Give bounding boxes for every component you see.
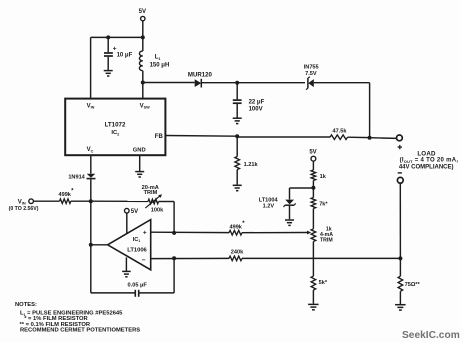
node LOAD + terminal (397, 135, 403, 141)
svg-text:+: + (113, 46, 117, 53)
wire (312, 188, 314, 198)
svg-text:5V: 5V (139, 9, 146, 15)
resistor R8 7k* (311, 198, 316, 209)
wire (151, 257, 229, 259)
svg-text:499k: 499k (58, 192, 71, 198)
wire (399, 291, 401, 304)
wire (71, 200, 91, 202)
junction (89, 243, 93, 247)
svg-text:22 μF: 22 μF (249, 100, 265, 106)
svg-text:150 μH: 150 μH (150, 63, 170, 69)
wire (314, 82, 370, 84)
svg-text:IN755: IN755 (304, 65, 319, 71)
svg-text:1.21k: 1.21k (244, 162, 259, 168)
wire (312, 161, 314, 170)
svg-text:1.2V: 1.2V (263, 203, 275, 209)
svg-text:IC1: IC1 (133, 237, 141, 243)
svg-text:*: * (71, 188, 74, 194)
svg-text:7.5V: 7.5V (305, 71, 317, 77)
wire (90, 179, 92, 201)
svg-text:47.5k: 47.5k (333, 129, 348, 135)
svg-text:FB: FB (155, 134, 164, 140)
ground (285, 219, 294, 221)
junction (106, 35, 110, 39)
svg-text:5V: 5V (309, 150, 316, 156)
svg-text:100V: 100V (249, 107, 263, 113)
wire (33, 200, 59, 202)
resistor R11 75ohm** (398, 276, 403, 291)
svg-text:75Ω**: 75Ω** (405, 282, 421, 288)
wire (159, 201, 175, 203)
junction (89, 199, 93, 203)
wire (165, 135, 237, 138)
junction (141, 35, 145, 39)
junction (235, 81, 239, 85)
op-amp U2 LT1072 switching regulator block (65, 99, 165, 156)
junction (311, 186, 315, 190)
wire (107, 37, 109, 52)
ground (104, 70, 113, 72)
junction (368, 136, 372, 140)
svg-text:7k*: 7k* (319, 202, 328, 208)
svg-text:+: + (143, 230, 147, 237)
svg-text:5V: 5V (131, 209, 138, 215)
junction (398, 256, 402, 260)
svg-text:TRIM: TRIM (144, 190, 158, 196)
svg-text:VIN: VIN (87, 103, 95, 109)
wire (236, 170, 238, 185)
svg-text:SeekIC.com: SeekIC.com (402, 330, 460, 341)
svg-text:100k: 100k (151, 207, 164, 213)
svg-text:LOAD: LOAD (417, 150, 436, 157)
wire (91, 244, 108, 246)
wire (142, 83, 144, 99)
wire (237, 136, 330, 138)
ground (395, 304, 406, 306)
wire (312, 209, 314, 229)
wire (312, 181, 314, 188)
ground (122, 270, 131, 272)
svg-text:(IOUT = 4 TO 20 mA,: (IOUT = 4 TO 20 mA, (400, 158, 459, 164)
svg-text:MUR120: MUR120 (188, 72, 213, 79)
svg-text:GND: GND (133, 147, 146, 153)
capacitor C1 10uF (104, 52, 113, 54)
node 5V supply terminal (op-amp) (125, 208, 130, 213)
wire (91, 200, 148, 202)
wire (151, 231, 229, 233)
ground (135, 171, 144, 173)
wire (370, 137, 398, 140)
svg-text:RECOMMEND CERMET POTENTIOMETER: RECOMMEND CERMET POTENTIOMETERS (20, 327, 140, 333)
svg-text:VIN: VIN (18, 199, 26, 205)
wire (290, 187, 314, 189)
wire (90, 201, 92, 293)
node LOAD - terminal (398, 172, 402, 174)
svg-text:VSW: VSW (140, 103, 151, 109)
wire (399, 183, 401, 258)
svg-text:499k: 499k (229, 224, 242, 230)
ground (233, 117, 242, 119)
wire (312, 290, 314, 304)
wire (173, 258, 175, 293)
svg-text:*: * (242, 221, 245, 227)
wire (348, 136, 370, 138)
svg-text:240k: 240k (231, 249, 244, 255)
wire (289, 206, 291, 220)
resistor R7 1k (311, 170, 316, 181)
svg-text:IC2: IC2 (111, 130, 119, 136)
svg-text:−: − (142, 257, 146, 264)
svg-text:(0 TO 2.56V): (0 TO 2.56V) (9, 206, 39, 212)
svg-text:0.05 μF: 0.05 μF (128, 283, 148, 289)
svg-text:L1: L1 (155, 55, 161, 61)
wire (236, 104, 238, 118)
wire (139, 155, 141, 171)
svg-text:10 μF: 10 μF (117, 53, 133, 59)
svg-text:TRIM: TRIM (320, 238, 333, 244)
wire (107, 57, 109, 70)
inductor L1 150uH (139, 51, 142, 71)
junction (141, 81, 145, 85)
ground (233, 184, 242, 186)
svg-text:44V COMPLIANCE): 44V COMPLIANCE) (399, 164, 454, 170)
junction (172, 256, 176, 260)
svg-text:VC: VC (87, 147, 94, 153)
wire (369, 83, 371, 138)
svg-text:1k: 1k (320, 174, 327, 180)
wire (126, 213, 128, 234)
junction (235, 134, 239, 138)
wire (125, 257, 127, 271)
wire (242, 257, 400, 259)
wire (201, 82, 237, 84)
wire (142, 71, 144, 83)
wire (140, 292, 175, 294)
wire (90, 37, 92, 98)
wire (143, 82, 195, 84)
wire (236, 136, 238, 156)
svg-text:LT1072: LT1072 (105, 122, 126, 129)
op-amp U1 LT1006 (108, 220, 151, 270)
svg-text:NOTES:: NOTES: (15, 302, 37, 308)
resistor R10 5k* (311, 276, 316, 290)
wire (399, 258, 401, 276)
wire (237, 82, 305, 84)
wire (91, 292, 135, 294)
wire (173, 202, 175, 233)
resistor R2 1.21k (235, 157, 240, 170)
wire (242, 232, 308, 234)
wire (90, 155, 92, 173)
junction (172, 231, 176, 235)
svg-text:1N914: 1N914 (68, 175, 85, 181)
svg-text:LT1006: LT1006 (127, 247, 147, 253)
potentiometer R9 1k 4-mA TRIM (311, 229, 316, 242)
wire (312, 242, 314, 277)
wire (142, 21, 144, 38)
svg-text:5k*: 5k* (319, 280, 328, 286)
wire (142, 37, 144, 51)
wire (289, 188, 291, 199)
capacitor C2 22uF 100V (233, 99, 242, 101)
wire (236, 83, 238, 100)
wire (91, 36, 143, 38)
ground (308, 303, 319, 305)
